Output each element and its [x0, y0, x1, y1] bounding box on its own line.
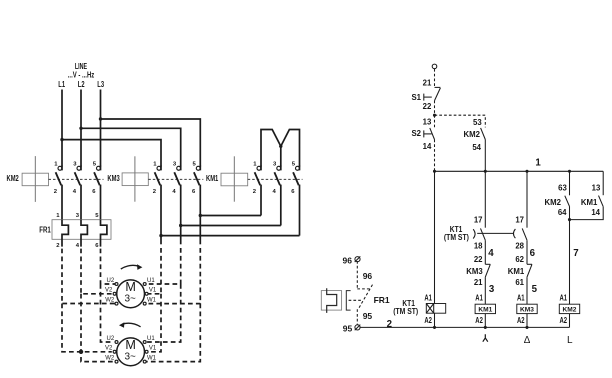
wire L3 branch to KM3 pole 5: [101, 119, 201, 166]
svg-text:FR1: FR1: [39, 226, 51, 235]
motor M2 terminal U1: [143, 336, 155, 344]
motor M1 terminal W2: [105, 297, 118, 305]
svg-text:64: 64: [558, 208, 567, 217]
contact KM1 62-61 (NC): [508, 255, 532, 287]
motor M1 rotation arrow: [121, 264, 143, 270]
motor M2 terminal W1: [143, 355, 156, 363]
svg-text:6: 6: [92, 189, 96, 195]
svg-text:5: 5: [95, 213, 99, 219]
motor M2 terminal U2: [107, 336, 118, 344]
wire KM3 21 to coil KM1: [484, 277, 486, 304]
svg-text:V1: V1: [149, 346, 157, 352]
pushbutton S1 (NC): [411, 79, 440, 111]
junction L3 branch: [99, 117, 102, 120]
svg-text:18: 18: [474, 242, 483, 251]
bus 2: [360, 326, 570, 328]
FR1 heater element pole 3: [81, 220, 87, 247]
svg-text:V2: V2: [105, 346, 113, 352]
svg-text:21: 21: [474, 278, 483, 287]
svg-text:L: L: [567, 335, 573, 346]
svg-text:(TM ST): (TM ST): [393, 307, 418, 316]
svg-text:A1: A1: [424, 294, 432, 303]
wire L2 to KM2 pole 3: [80, 90, 82, 167]
svg-text:A1: A1: [560, 294, 568, 303]
contact KM2 pole 5-6: [92, 162, 100, 220]
svg-text:28: 28: [515, 242, 524, 251]
svg-text:...V - ...Hz: ...V - ...Hz: [68, 70, 95, 79]
svg-text:KM2: KM2: [7, 174, 20, 183]
svg-text:L3: L3: [97, 80, 104, 89]
mechanical link KM3: [148, 178, 203, 180]
svg-text:2: 2: [387, 319, 392, 330]
svg-text:1: 1: [535, 158, 541, 169]
svg-text:U1: U1: [147, 278, 155, 284]
svg-text:2: 2: [56, 243, 60, 249]
svg-text:A1: A1: [475, 294, 483, 303]
junction delta bridge center: [279, 145, 282, 148]
svg-text:FR1: FR1: [374, 295, 390, 305]
contactor KM3 coil: [107, 156, 148, 201]
terminal FR1 95: [343, 324, 361, 334]
svg-text:1: 1: [253, 162, 257, 168]
svg-text:3: 3: [76, 213, 80, 219]
FR1 trip bracket: [346, 291, 350, 311]
wire bus1 corner to KM1 13: [602, 171, 604, 195]
svg-text:M: M: [125, 280, 136, 294]
svg-text:5: 5: [193, 162, 197, 168]
junction motor2 V2 cable: [79, 350, 84, 355]
svg-text:S2: S2: [411, 129, 421, 138]
cable KM3-2 to motor1 V1 and motor2 V1: [148, 248, 161, 352]
wire node 13 to KM2 53 branch: [435, 115, 486, 127]
svg-text:7: 7: [573, 248, 578, 259]
svg-text:1: 1: [153, 162, 157, 168]
junction bus1 KM2 branch: [568, 170, 571, 173]
svg-text:21: 21: [423, 79, 432, 88]
junction bus1 KM1 branch: [484, 170, 487, 173]
coil KM2: [559, 294, 579, 325]
wire L1 branch to KM3 pole 1: [62, 140, 161, 167]
contact KM1 pole 1-2: [253, 162, 261, 216]
svg-text:(TM ST): (TM ST): [444, 233, 469, 242]
wire KM1 14 to merge: [570, 207, 604, 220]
FR1 terminal numbers top: [56, 213, 99, 219]
svg-text:3: 3: [273, 162, 277, 168]
motor M1 body: [117, 280, 145, 308]
svg-text:U2: U2: [107, 336, 115, 342]
svg-text:6: 6: [192, 189, 196, 195]
mechanical link KM1: [248, 178, 303, 180]
svg-text:S1: S1: [411, 93, 421, 102]
svg-text:14: 14: [423, 142, 432, 151]
terminal FR1 96: [343, 255, 361, 265]
relay FR1 trip element: [321, 288, 341, 313]
contact KM2 63-64 (NO): [545, 184, 570, 217]
cable FR1-6 to motor1 U2 and motor2 U2: [101, 249, 116, 342]
svg-text:A2: A2: [475, 316, 483, 325]
motor M2 terminal W2: [105, 355, 118, 363]
coil KM1: [475, 294, 495, 325]
motor M2 rotation arrow: [119, 322, 141, 328]
contact KT1 17-28 timed NO: [513, 216, 527, 251]
svg-text:V1: V1: [149, 288, 157, 294]
motor M1 terminal U2: [107, 278, 118, 286]
svg-text:W2: W2: [105, 297, 115, 303]
junction L2 branch: [79, 127, 82, 130]
wire KM3-2 to KM1-6: [161, 235, 300, 237]
svg-text:17: 17: [474, 216, 483, 225]
svg-text:95: 95: [363, 311, 373, 321]
timer coil KT1: [393, 294, 445, 325]
wire L1 to KM2 pole 1: [61, 90, 63, 167]
wire supply to S1: [434, 69, 436, 88]
svg-text:2: 2: [153, 189, 157, 195]
svg-text:KM2: KM2: [545, 198, 562, 207]
contact KM1 pole 5-6: [291, 162, 299, 236]
junction KM3-4: [179, 224, 182, 227]
svg-text:5: 5: [532, 284, 538, 295]
relay FR1 box: [39, 220, 111, 240]
svg-text:W1: W1: [147, 355, 157, 361]
svg-text:3: 3: [73, 162, 77, 168]
contact KM1 pole 3-4: [273, 162, 281, 226]
cable FR1-2 to motor1 W2 and motor2 V2: [62, 249, 115, 352]
cable KM3-4 to motor1 U1 and motor2 U1: [146, 248, 181, 342]
contactor KM1 coil: [206, 156, 248, 201]
svg-text:63: 63: [558, 184, 567, 193]
svg-text:KM1: KM1: [508, 267, 525, 276]
wire KM3-6 to KM1-2: [200, 215, 261, 217]
svg-text:13: 13: [423, 118, 432, 127]
svg-text:3: 3: [173, 162, 177, 168]
contact KT1 17-18 timed NO: [473, 216, 485, 251]
svg-text:2: 2: [54, 189, 58, 195]
svg-text:U2: U2: [107, 278, 115, 284]
svg-text:M: M: [125, 338, 136, 352]
svg-text:V2: V2: [105, 288, 113, 294]
svg-text:22: 22: [423, 102, 432, 111]
svg-text:L1: L1: [58, 80, 65, 89]
svg-text:A1: A1: [517, 294, 525, 303]
junction merge: [568, 218, 571, 221]
wire coil KM2 to bus 2: [569, 314, 571, 328]
svg-text:5: 5: [93, 162, 97, 168]
junction L1 branch: [60, 138, 63, 141]
svg-text:KM1: KM1: [478, 306, 492, 313]
link FR1 trip to contact: [349, 299, 362, 301]
FR1 heater element pole 1: [62, 220, 68, 247]
wire KM3-4 to KM1-4: [181, 225, 281, 227]
contact KM2 pole 3-4: [73, 162, 81, 220]
coil KM3: [517, 294, 537, 325]
FR1 heater element pole 5: [101, 220, 107, 247]
svg-text:3~: 3~: [124, 294, 136, 305]
contact KM1 13-14 (NO): [581, 184, 603, 217]
svg-text:KM1: KM1: [206, 174, 219, 183]
star symbol: [483, 334, 488, 341]
wire bus1 to KT1 contact left: [484, 171, 486, 227]
motor M1 terminal V1: [145, 288, 157, 296]
timer KT1 label: [444, 225, 469, 242]
svg-text:A2: A2: [517, 316, 525, 325]
wire S1 to node 13: [434, 101, 436, 128]
svg-text:62: 62: [515, 255, 524, 264]
svg-text:6: 6: [95, 243, 99, 249]
link KT1 contacts: [477, 232, 513, 234]
junction bus2 KT1: [433, 326, 436, 329]
node 1 bus: [435, 158, 604, 172]
contactor KM2 coil: [7, 156, 49, 202]
node LINE label: [68, 62, 95, 80]
wire bus1 to timer coil KT1: [434, 171, 436, 303]
svg-text:A2: A2: [560, 316, 568, 325]
svg-text:KM1: KM1: [581, 198, 598, 207]
terminal control supply: [432, 64, 437, 69]
junction bus2 KM3: [525, 326, 528, 329]
wire L3 to KM2 pole 5: [100, 90, 102, 167]
wire S2 to bus 1: [434, 140, 436, 172]
motor M1 terminal V2: [105, 288, 116, 296]
contact KM3 pole 1-2: [153, 162, 161, 245]
svg-text:W1: W1: [147, 297, 157, 303]
junction bus2 KM1: [484, 326, 487, 329]
cable FR1-4 to motor1 V2 and motor2 W2: [81, 249, 114, 362]
contact KM3 pole 5-6: [192, 162, 200, 245]
wire KM2 54 to bus 1: [484, 140, 486, 172]
svg-text:3~: 3~: [124, 352, 136, 363]
svg-text:L2: L2: [78, 80, 85, 89]
svg-text:KM2: KM2: [464, 130, 481, 139]
motor M2 terminal V2: [105, 346, 116, 354]
svg-text:Δ: Δ: [524, 335, 531, 346]
svg-text:96: 96: [343, 255, 353, 265]
wire delta bridge over KM1: [261, 130, 300, 167]
svg-text:A2: A2: [424, 316, 432, 325]
svg-text:6: 6: [530, 248, 536, 259]
wire coil KM3 to bus 2: [526, 314, 528, 328]
svg-text:KM3: KM3: [466, 267, 483, 276]
wire KM1 61 to coil KM3: [526, 277, 528, 304]
svg-text:4: 4: [73, 189, 77, 195]
svg-text:61: 61: [515, 278, 524, 287]
wire bus1 to KT1 contact right: [526, 171, 528, 227]
FR1 terminal numbers bottom: [56, 243, 99, 249]
wire KT1 18 to KM3 22: [484, 240, 486, 264]
svg-text:4: 4: [76, 243, 80, 249]
svg-text:KM2: KM2: [563, 306, 577, 313]
wire L2 branch to KM3 pole 3: [81, 128, 181, 166]
contact KM2 53-54 (NO): [464, 118, 486, 152]
svg-text:KM3: KM3: [107, 174, 120, 183]
svg-text:4: 4: [172, 189, 176, 195]
wire coil KM1 to bus 2: [484, 314, 486, 328]
svg-text:4: 4: [273, 189, 277, 195]
svg-text:2: 2: [253, 189, 257, 195]
wire timer coil KT1 to bus 2: [434, 313, 436, 327]
svg-text:96: 96: [363, 271, 373, 281]
junction KM3-2: [159, 234, 162, 237]
svg-text:22: 22: [474, 255, 483, 264]
motor M1 terminal U1: [143, 278, 155, 286]
wire node 7 to coil KM2: [569, 220, 571, 305]
cable KM3-6 to motor1 W1 and motor2 W1: [146, 248, 200, 362]
svg-text:1: 1: [56, 213, 60, 219]
mechanical link KM2: [49, 178, 104, 180]
motor M2 body: [117, 338, 145, 366]
svg-text:4: 4: [488, 248, 494, 259]
svg-text:13: 13: [592, 184, 601, 193]
junction bus1 left: [433, 170, 436, 173]
contact KM3 pole 3-4: [172, 162, 180, 245]
svg-text:14: 14: [591, 208, 600, 217]
wire bridge to KM1 pole 3: [280, 146, 282, 166]
wire bus1 to KM2 63: [569, 171, 571, 195]
svg-text:54: 54: [472, 143, 481, 152]
svg-text:95: 95: [343, 324, 353, 334]
svg-text:3: 3: [489, 284, 495, 295]
junction bus1 KM3 branch: [525, 170, 528, 173]
motor M1 terminal W1: [143, 297, 156, 305]
svg-text:W2: W2: [105, 355, 115, 361]
svg-text:53: 53: [473, 118, 482, 127]
contact KM3 22-21 (NC): [466, 255, 490, 287]
svg-text:17: 17: [515, 216, 524, 225]
motor M2 terminal V1: [145, 346, 157, 354]
junction node 13: [433, 114, 436, 117]
svg-text:U1: U1: [147, 336, 155, 342]
wire KT1 28 to KM1 62: [526, 240, 528, 264]
svg-text:6: 6: [291, 189, 295, 195]
svg-text:1: 1: [54, 162, 58, 168]
svg-text:5: 5: [292, 162, 296, 168]
junction KM3-6: [199, 214, 202, 217]
svg-text:KM3: KM3: [520, 306, 534, 313]
contact FR1 95-96 (NC, dashed): [357, 261, 372, 325]
pushbutton S2 (NO): [411, 118, 434, 151]
wire KM2 64 to merge: [569, 206, 571, 219]
contact KM2 pole 1-2: [54, 162, 62, 220]
